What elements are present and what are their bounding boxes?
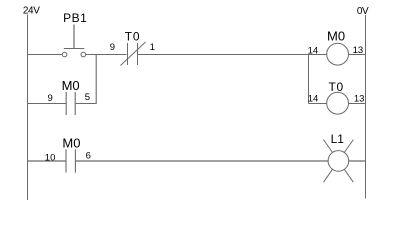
svg-text:10: 10: [45, 152, 56, 163]
lamp L1 circle: [328, 151, 349, 172]
wire: left branch vertical junction: [95, 55, 97, 104]
svg-text:13: 13: [354, 93, 365, 104]
contact T0 NC slash: [121, 42, 146, 66]
wire branch2: junction to coil T0: [309, 103, 327, 105]
contact M0 right bar: [74, 92, 76, 115]
svg-text:T0: T0: [125, 29, 140, 43]
svg-text:L1: L1: [331, 132, 345, 146]
wire rung1: rail to PB1: [28, 54, 63, 56]
svg-text:1: 1: [150, 42, 155, 53]
lamp L1 ray NW: [324, 140, 333, 153]
pushbutton PB1 left terminal: [62, 52, 67, 57]
pushbutton PB1 stem: [73, 25, 75, 49]
svg-text:13: 13: [353, 45, 364, 56]
svg-text:9: 9: [48, 93, 53, 104]
svg-text:M0: M0: [327, 29, 345, 44]
svg-text:M0: M0: [62, 78, 80, 93]
left power rail 24V: [27, 15, 29, 201]
wire rung1: PB1 to T0 contact: [86, 54, 127, 56]
contact M0 rung2 left bar: [65, 149, 67, 172]
coil M0 circle: [327, 43, 349, 65]
svg-text:14: 14: [308, 45, 319, 56]
svg-text:5: 5: [85, 92, 90, 103]
contact T0 left bar: [127, 43, 129, 65]
wire rung2: rail to M0 contact: [28, 160, 66, 162]
wire branch1: rail to M0 contact: [28, 103, 67, 105]
contact T0 right bar: [137, 43, 139, 65]
svg-text:M0: M0: [62, 136, 80, 151]
svg-text:0V: 0V: [357, 6, 369, 17]
pushbutton PB1 right terminal: [81, 52, 86, 57]
svg-text:6: 6: [86, 150, 91, 161]
svg-text:14: 14: [308, 93, 319, 104]
wire rung1: coil M0 to right rail: [348, 54, 365, 56]
pushbutton PB1 bar: [64, 48, 84, 50]
contact M0 left bar: [65, 92, 67, 115]
lamp L1 ray NE: [344, 140, 353, 153]
svg-text:9: 9: [110, 42, 115, 53]
wire rung2: M0 contact to lamp L1: [76, 160, 328, 162]
svg-text:PB1: PB1: [63, 11, 87, 25]
svg-text:T0: T0: [329, 80, 344, 94]
wire rung1: T0 contact to coil M0: [138, 54, 327, 56]
coil T0 circle: [327, 92, 349, 114]
lamp L1 ray SW: [324, 169, 333, 182]
contact M0 rung2 right bar: [74, 149, 76, 172]
right power rail 0V: [365, 15, 367, 199]
wire rung2: lamp L1 to right rail: [349, 160, 366, 162]
wire branch2: coil T0 to right rail: [348, 103, 365, 105]
wire branch1: M0 contact to junction: [76, 103, 97, 105]
wire: right branch vertical junction: [308, 55, 310, 104]
lamp L1 ray SE: [344, 169, 353, 182]
svg-text:24V: 24V: [23, 6, 40, 17]
